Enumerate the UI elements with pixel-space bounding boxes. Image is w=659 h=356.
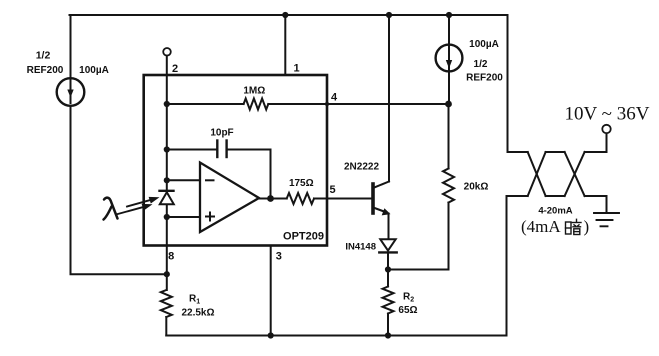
diode D2 cathode bar	[379, 251, 396, 253]
svg-text:R1: R1	[189, 294, 200, 306]
wire pin3 from package bottom to ground rail	[270, 246, 272, 336]
wire diode node right to 20k column	[388, 269, 449, 271]
svg-text:OPT209: OPT209	[283, 231, 324, 243]
resistor R2 zigzag	[383, 287, 394, 314]
wire emitter down to diode	[388, 214, 390, 240]
resistor 20k zigzag	[443, 169, 454, 203]
light arrow 2	[127, 197, 160, 207]
glyph dark character	[566, 219, 582, 234]
wire diode to node	[387, 252, 389, 269]
wire 20k top segment to pin4 node	[448, 104, 450, 169]
junction dot current source 2 top rail	[446, 12, 452, 18]
IC package OPT209 outline box	[144, 75, 327, 246]
svg-text:8: 8	[168, 251, 174, 263]
wire capacitor row left segment	[167, 149, 218, 151]
light arrow 1	[116, 204, 153, 215]
wire right vertical from top rail down to twisted pair	[507, 15, 509, 152]
wire non-inverting input	[167, 216, 200, 218]
svg-text:20kΩ: 20kΩ	[464, 182, 489, 193]
transistor Q1 collector diagonal	[374, 182, 390, 188]
wire R1 bottom to ground rail	[165, 317, 167, 336]
svg-text:4: 4	[331, 92, 338, 104]
current source I2 1/2 REF200 circle	[436, 45, 463, 72]
wire left current-source branch down	[70, 15, 72, 79]
diode D2 IN4148 triangle	[380, 239, 395, 250]
wire R2 bottom to ground rail	[387, 314, 389, 336]
twisted pair crossing X2	[565, 152, 585, 196]
wire 1Mohm right to current source node	[268, 103, 448, 105]
terminal pin2 open circle	[163, 48, 171, 56]
svg-text:10V ~ 36V: 10V ~ 36V	[565, 104, 650, 125]
svg-text:1MΩ: 1MΩ	[243, 86, 265, 97]
terminal 10V-36V open circle	[602, 125, 610, 133]
twisted pair crossing X1	[528, 152, 546, 196]
svg-text:(4mA: (4mA	[521, 217, 561, 236]
junction dot R2 ground rail	[385, 332, 391, 338]
wire inverting input	[167, 179, 200, 181]
wire bottom ground rail	[166, 197, 506, 336]
junction dot pin4 box edge	[325, 102, 329, 106]
wire pin1 from top rail into package	[284, 15, 286, 75]
svg-text:65Ω: 65Ω	[398, 305, 417, 316]
wire 20k bottom segment	[448, 203, 450, 270]
junction dot diode anode row	[164, 177, 170, 183]
resistor 175ohm zigzag	[287, 193, 314, 204]
wire capacitor right segment and down to op-amp output node	[227, 150, 271, 199]
label lambda	[104, 198, 118, 220]
transistor Q1 emitter diagonal with arrow	[374, 208, 391, 216]
wire node to R2	[387, 270, 389, 287]
svg-text:REF200: REF200	[27, 65, 64, 76]
current source I1 1/2 REF200 circle	[57, 78, 85, 106]
junction dot pin1 top rail	[282, 12, 288, 18]
junction dot collector top rail	[386, 12, 392, 18]
twisted pair bottom-right stub down to ground	[585, 196, 607, 213]
svg-text:4-20mA: 4-20mA	[538, 206, 572, 217]
op-amp minus sign	[206, 179, 214, 181]
transistor Q1 base bar	[371, 184, 375, 213]
current source I1 internal arrow	[67, 80, 73, 103]
resistor R1 zigzag	[161, 290, 172, 317]
svg-text:100µA: 100µA	[79, 65, 109, 76]
wire top supply rail	[70, 14, 508, 16]
svg-text:1: 1	[293, 63, 299, 75]
wire feedback 1M ohm row (node 2 to pin 4 node)	[167, 103, 244, 105]
junction dot diode bottom node	[385, 266, 391, 272]
svg-text:10pF: 10pF	[210, 128, 233, 139]
resistor 1Mohm zigzag	[244, 99, 269, 110]
svg-text:22.5kΩ: 22.5kΩ	[181, 308, 214, 319]
junction dot pin4 node	[445, 101, 452, 108]
wire right current source bottom	[448, 69, 450, 104]
wire pin2 vertical into package down to R1	[166, 56, 168, 290]
junction dot node2 cap row	[164, 146, 170, 152]
junction dot pin3 ground rail	[268, 332, 274, 338]
svg-text:2N2222: 2N2222	[344, 162, 379, 173]
junction dot node2 1M row	[164, 101, 170, 107]
twisted pair top-left stub	[508, 151, 528, 153]
wire left outer loop down and right to node at R1 top	[71, 106, 167, 274]
op-amp plus sign	[206, 213, 214, 221]
svg-text:175Ω: 175Ω	[289, 178, 314, 189]
svg-text:1/2: 1/2	[36, 50, 51, 62]
wire pin5 from 175ohm to transistor base	[314, 198, 373, 200]
svg-text:R2: R2	[403, 292, 414, 304]
twisted pair top-right stub up to supply terminal	[585, 134, 607, 153]
svg-text:3: 3	[276, 251, 282, 263]
ground symbol	[594, 213, 619, 226]
junction dot diode cathode row	[164, 214, 170, 220]
svg-text:IN4148: IN4148	[345, 242, 376, 253]
wire op-amp output to 175 ohm	[259, 198, 287, 200]
photodiode D1 cathode bar	[160, 190, 174, 192]
wire collector up to top rail	[388, 15, 390, 182]
svg-text:): )	[584, 217, 590, 236]
svg-text:1/2: 1/2	[474, 59, 488, 70]
svg-text:5: 5	[329, 184, 335, 196]
junction dot op-amp output	[267, 195, 274, 202]
op-amp U1 triangle	[200, 163, 259, 233]
svg-text:100µA: 100µA	[469, 39, 499, 50]
junction dot R1 top node	[164, 271, 170, 277]
capacitor C1 10pF plates	[217, 141, 226, 158]
photodiode D1 triangle	[160, 192, 174, 204]
current source I2 internal arrow	[446, 47, 452, 69]
svg-text:REF200: REF200	[466, 73, 503, 84]
wire right current source top	[448, 15, 450, 45]
twisted pair bottom-left stub	[507, 195, 528, 197]
svg-text:2: 2	[172, 63, 178, 75]
twisted pair middle stubs	[546, 152, 565, 196]
